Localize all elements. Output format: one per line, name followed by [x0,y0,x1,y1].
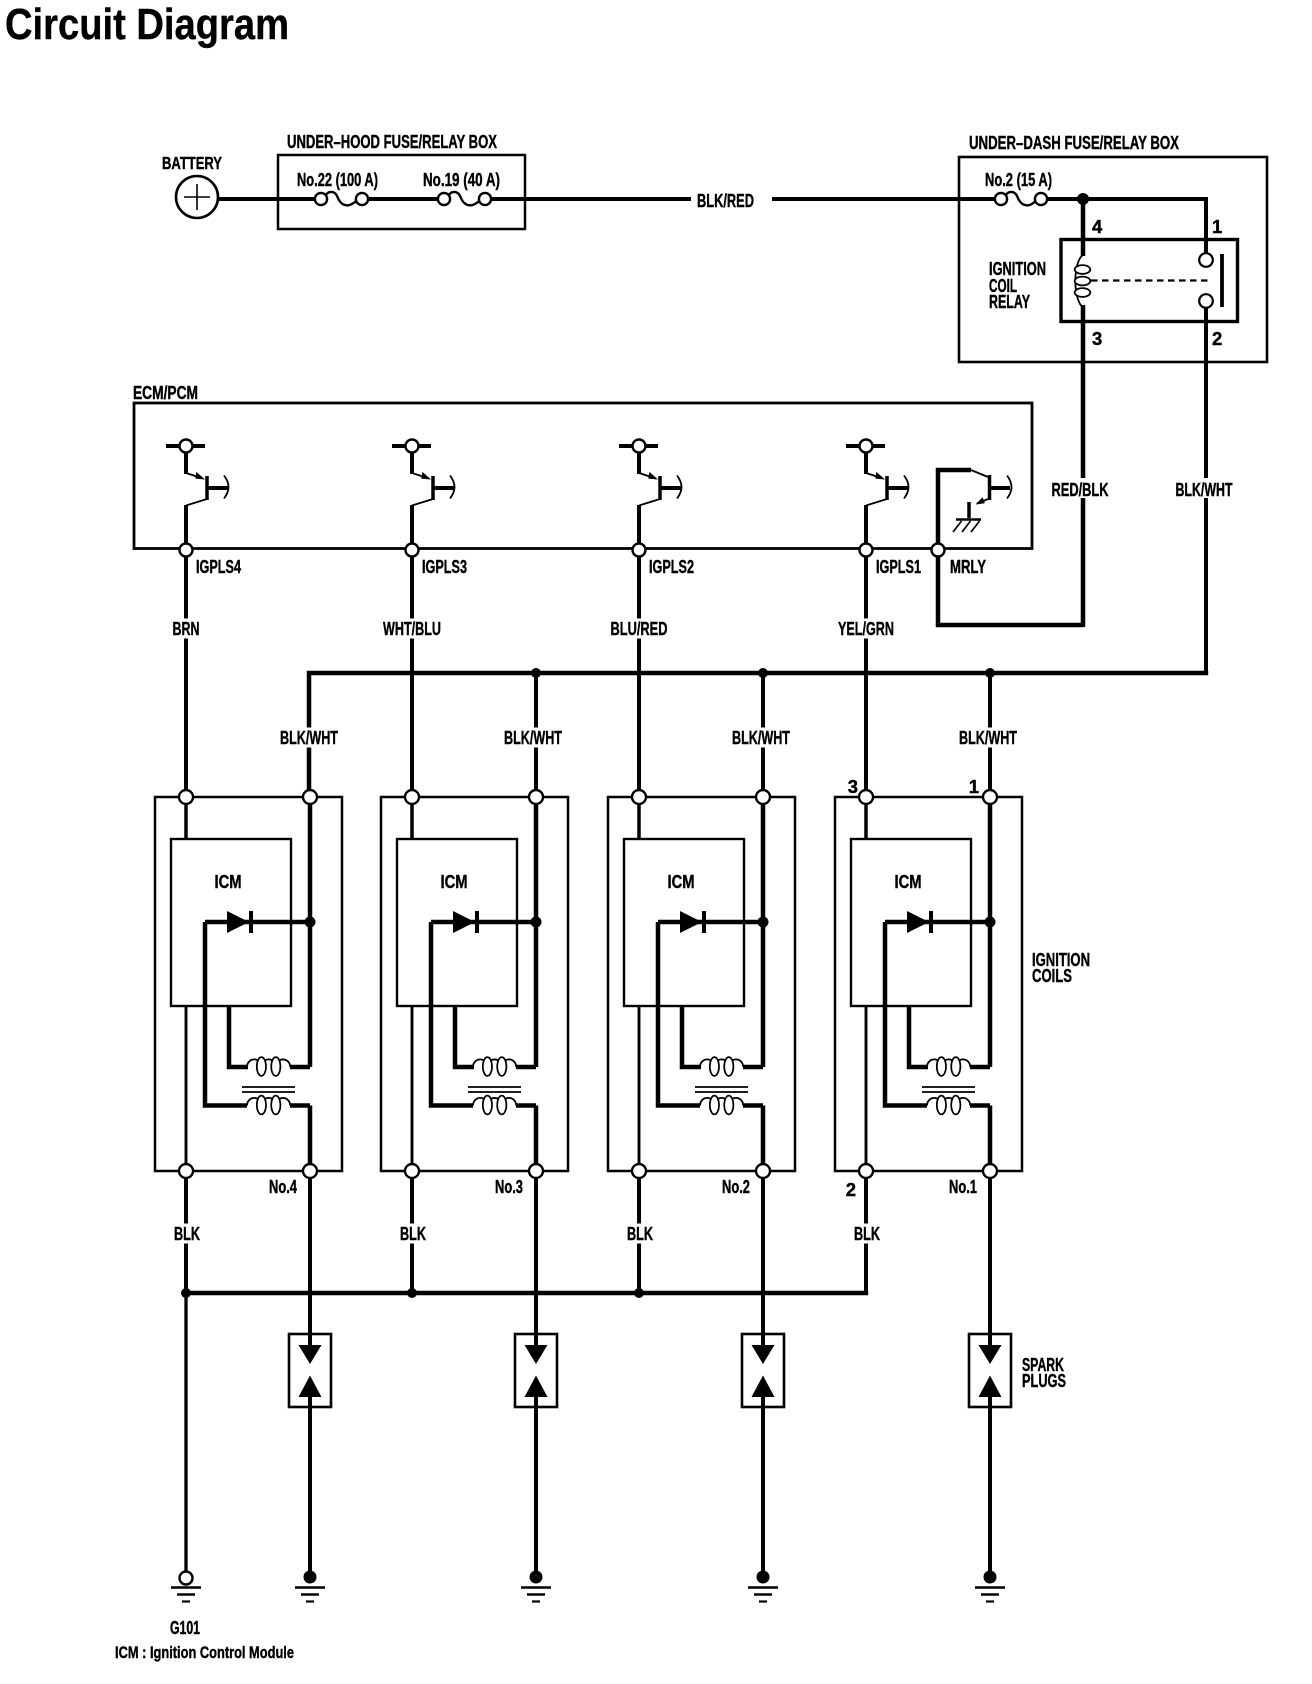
svg-text:BATTERY: BATTERY [162,153,222,173]
svg-text:BLK/WHT: BLK/WHT [959,728,1017,748]
svg-text:No.1: No.1 [949,1177,977,1197]
svg-text:3: 3 [848,776,858,797]
svg-text:UNDER–HOOD FUSE/RELAY BOX: UNDER–HOOD FUSE/RELAY BOX [287,132,497,152]
svg-text:IGPLS3: IGPLS3 [422,557,467,577]
svg-text:BLK: BLK [854,1224,880,1244]
svg-text:4: 4 [1092,216,1103,237]
svg-text:IGPLS1: IGPLS1 [876,557,921,577]
svg-text:1: 1 [1212,216,1222,237]
svg-text:BLK/WHT: BLK/WHT [280,728,338,748]
svg-text:BLK/WHT: BLK/WHT [1176,480,1233,500]
svg-text:RED/BLK: RED/BLK [1052,480,1109,500]
svg-text:ICM: ICM [668,872,695,892]
svg-text:BRN: BRN [173,619,200,639]
svg-text:No.3: No.3 [495,1177,523,1197]
svg-text:BLK/WHT: BLK/WHT [504,728,562,748]
svg-text:RELAY: RELAY [989,292,1030,312]
svg-text:G101: G101 [170,1618,200,1638]
svg-text:BLK/RED: BLK/RED [697,191,754,211]
svg-text:Circuit Diagram: Circuit Diagram [5,0,289,49]
svg-text:ICM: ICM [895,872,922,892]
svg-text:COILS: COILS [1032,966,1072,986]
svg-text:2: 2 [1212,328,1222,349]
svg-text:IGPLS2: IGPLS2 [649,557,694,577]
svg-text:No.19 (40 A): No.19 (40 A) [423,170,500,190]
svg-text:No.4: No.4 [269,1177,297,1197]
svg-text:2: 2 [846,1179,856,1200]
svg-text:BLU/RED: BLU/RED [611,619,668,639]
svg-text:BLK/WHT: BLK/WHT [732,728,790,748]
svg-text:ICM: ICM [215,872,242,892]
svg-text:ECM/PCM: ECM/PCM [133,383,198,403]
svg-text:ICM : Ignition Control Module: ICM : Ignition Control Module [115,1643,294,1662]
svg-text:BLK: BLK [400,1224,426,1244]
svg-text:No.22 (100 A): No.22 (100 A) [297,170,378,190]
svg-text:BLK: BLK [174,1224,200,1244]
svg-text:No.2 (15 A): No.2 (15 A) [985,170,1052,190]
svg-text:MRLY: MRLY [950,557,986,577]
svg-text:IGPLS4: IGPLS4 [196,557,241,577]
svg-text:ICM: ICM [441,872,468,892]
svg-text:No.2: No.2 [722,1177,750,1197]
svg-text:UNDER–DASH FUSE/RELAY BOX: UNDER–DASH FUSE/RELAY BOX [969,133,1179,153]
svg-text:YEL/GRN: YEL/GRN [838,619,894,639]
svg-text:1: 1 [969,776,979,797]
svg-text:WHT/BLU: WHT/BLU [383,619,441,639]
svg-text:3: 3 [1092,328,1102,349]
svg-text:BLK: BLK [627,1224,653,1244]
svg-text:PLUGS: PLUGS [1022,1371,1066,1391]
